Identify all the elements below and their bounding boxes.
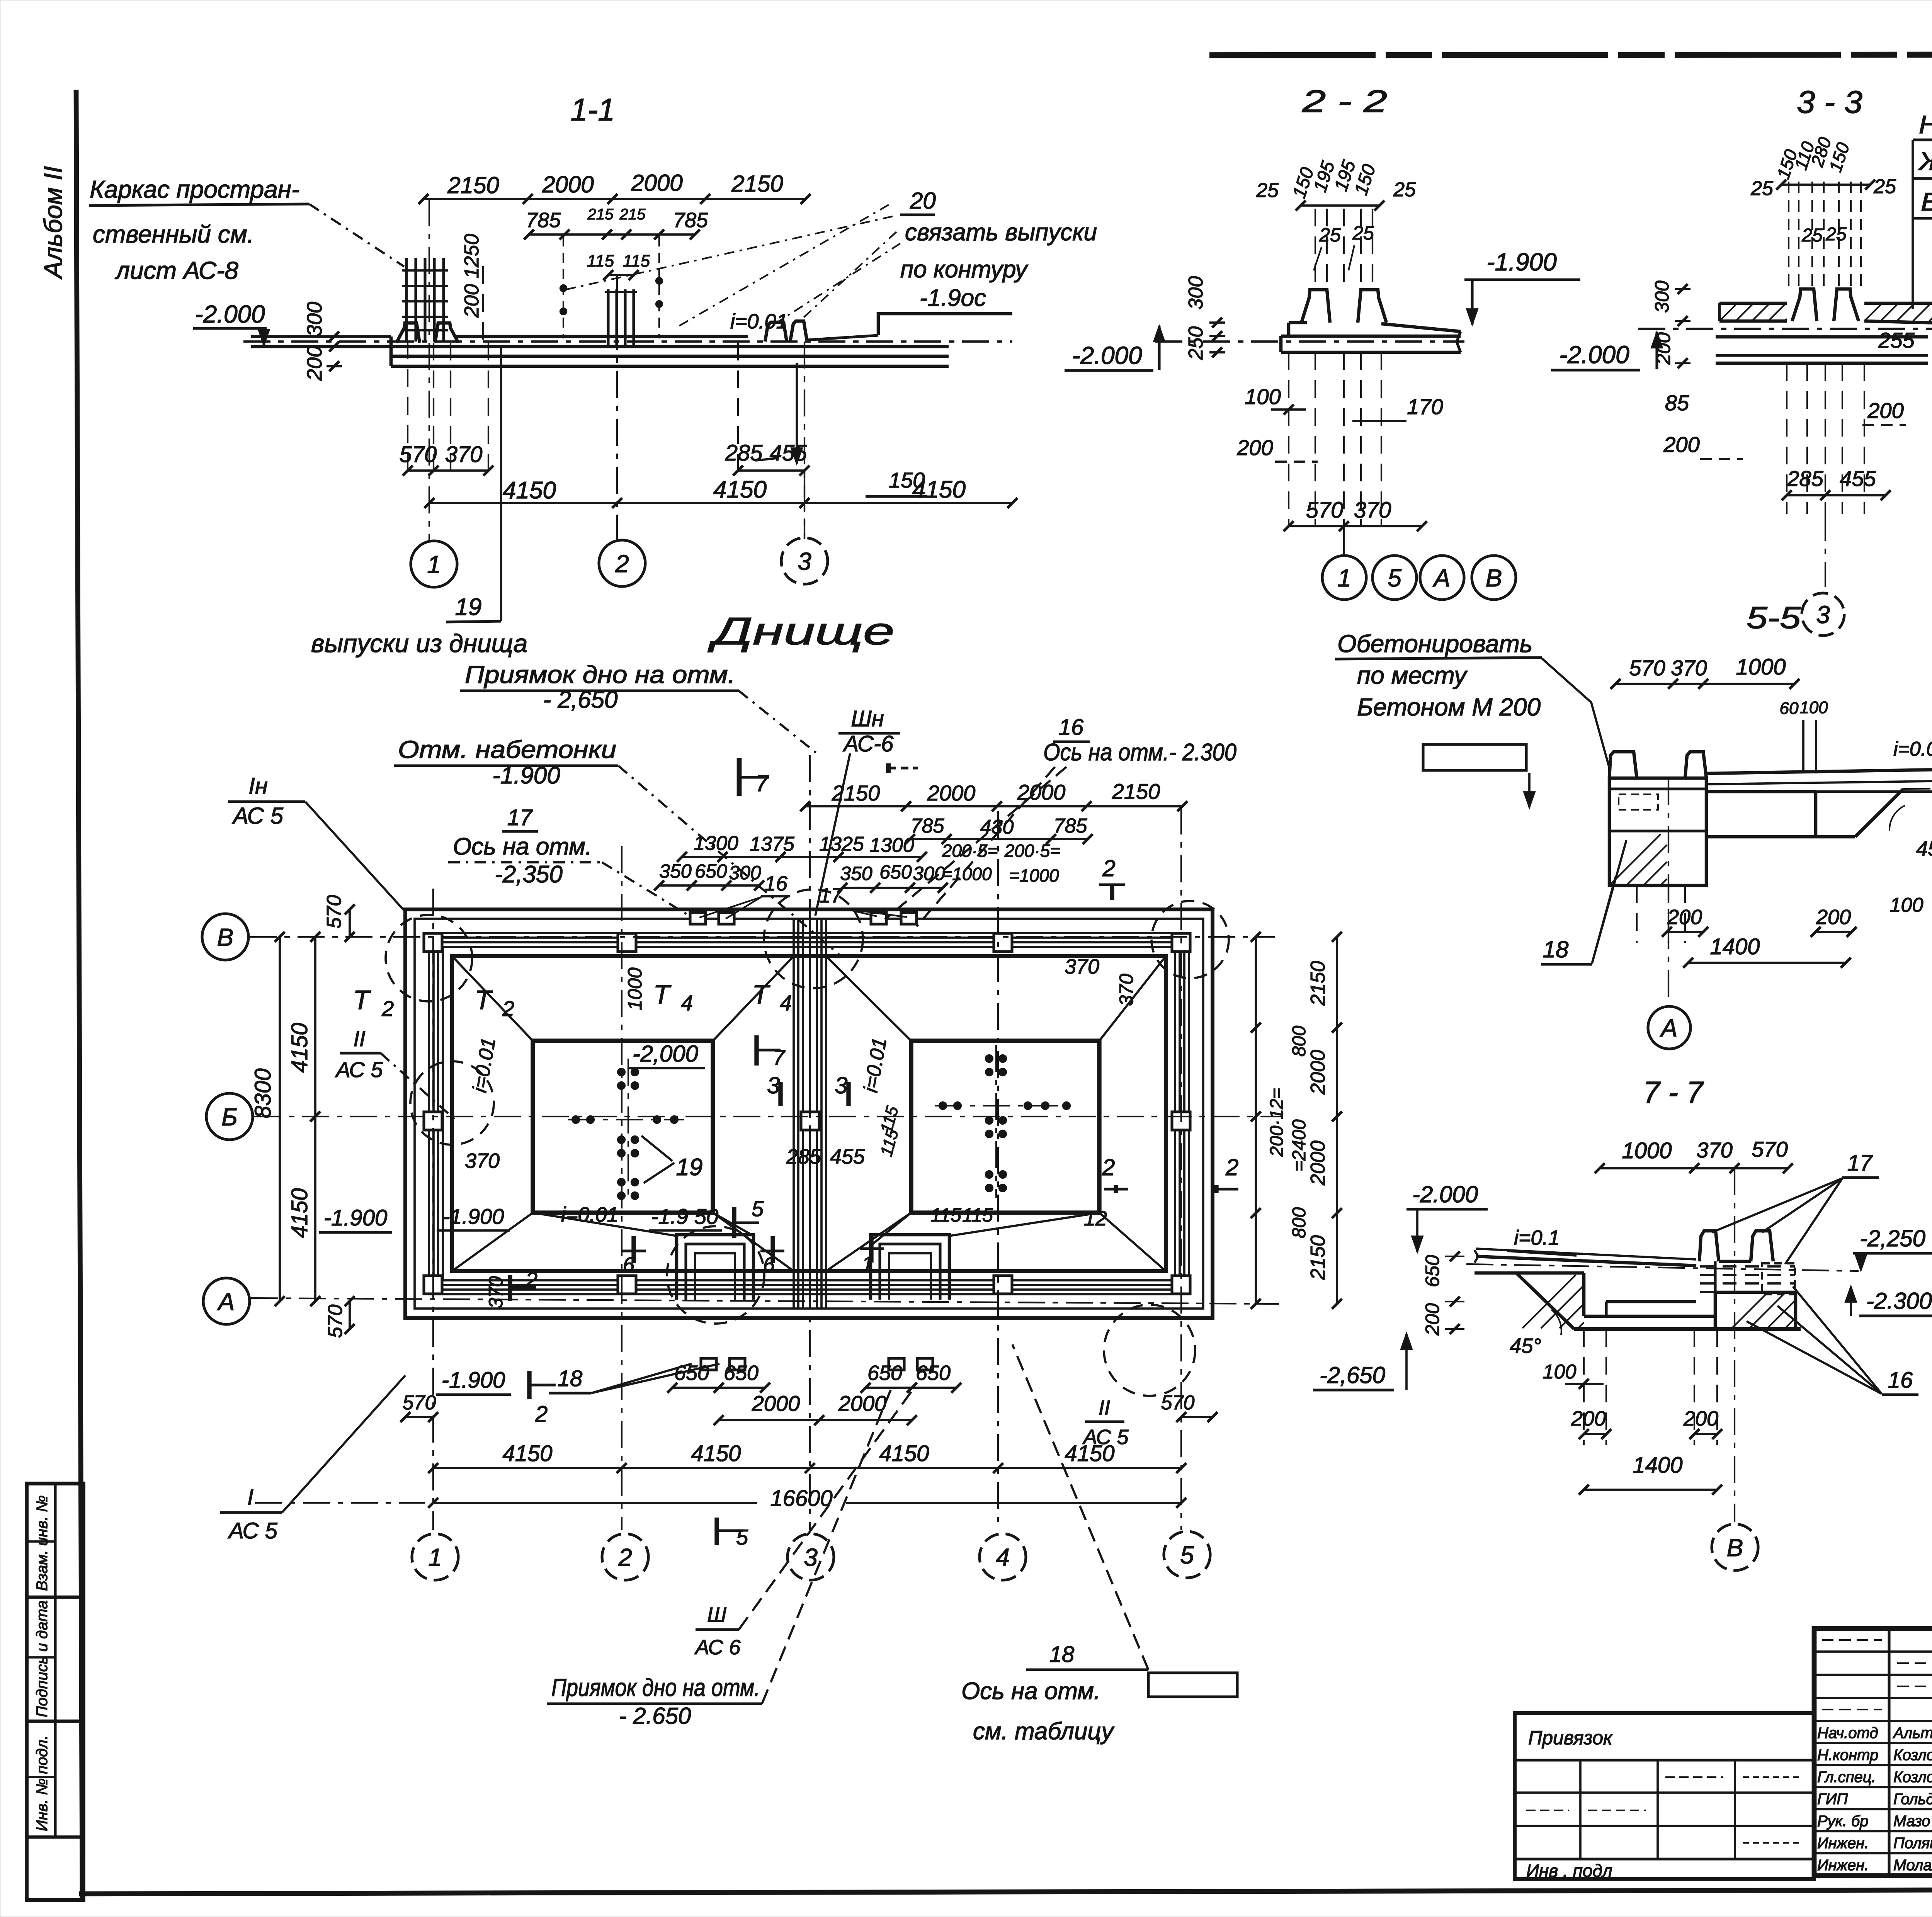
- section 2-2 top dim: [1301, 204, 1379, 207]
- section 3-3 centerline: [1638, 328, 1932, 330]
- svg-text:А: А: [1660, 1014, 1678, 1042]
- svg-text:300: 300: [1651, 280, 1673, 313]
- section 3-3 dim 285 455: [1787, 494, 1886, 496]
- svg-text:1300: 1300: [869, 834, 914, 857]
- section 2-2 lower dashed verticals: [1288, 352, 1289, 527]
- section 5-5 left block rect: [1423, 744, 1526, 770]
- svg-text:В: В: [217, 923, 234, 951]
- svg-text:АС 5: АС 5: [228, 1518, 277, 1543]
- svg-text:1000: 1000: [1736, 654, 1786, 680]
- section 1-1 axis circle 2: [599, 540, 645, 586]
- section 5-5 ground dashdot right: [1903, 787, 1932, 789]
- plan outer wall rectangles: [405, 909, 1213, 1318]
- svg-text:-1.900: -1.900: [442, 1368, 505, 1393]
- section 5-5 axis circle A: [1648, 1006, 1690, 1049]
- svg-text:Каркас простран-: Каркас простран-: [90, 175, 299, 203]
- svg-text:2000: 2000: [752, 1391, 800, 1416]
- svg-text:1000: 1000: [624, 967, 646, 1010]
- svg-text:2: 2: [502, 996, 514, 1021]
- svg-text:-2.000: -2.000: [1072, 342, 1142, 369]
- section 1-1 fan leaders: [678, 205, 889, 326]
- svg-text:370: 370: [1065, 955, 1099, 978]
- svg-text:255: 255: [1878, 328, 1915, 352]
- svg-text:200: 200: [1422, 1303, 1443, 1336]
- plan axis circle B: [206, 1093, 253, 1140]
- svg-text:285: 285: [725, 440, 763, 466]
- svg-text:=2400: =2400: [1289, 1119, 1310, 1171]
- svg-text:650: 650: [674, 1361, 709, 1385]
- svg-text:200: 200: [1236, 435, 1273, 460]
- svg-text:215: 215: [619, 206, 646, 223]
- svg-text:по месту: по месту: [1357, 661, 1468, 689]
- svg-text:Приямок дно на отм.: Приямок дно на отм.: [551, 1674, 760, 1701]
- svg-text:570: 570: [1629, 656, 1665, 680]
- svg-text:Инжен.: Инжен.: [1817, 1835, 1869, 1852]
- section 1-1 rebar cage axis1: [405, 258, 408, 342]
- plan left vertical dims: [279, 937, 281, 1301]
- svg-text:800: 800: [1289, 1026, 1310, 1057]
- svg-text:А: А: [217, 1288, 235, 1315]
- plan left chamber inner square: [533, 1041, 713, 1213]
- plan axis vertical 5: [1180, 807, 1182, 1530]
- svg-text:19: 19: [455, 594, 482, 620]
- plan marker 5 inner: [732, 1207, 736, 1238]
- svg-text:Ш: Ш: [707, 1603, 726, 1626]
- svg-text:3: 3: [767, 1072, 780, 1098]
- svg-text:-2.000: -2.000: [1412, 1181, 1478, 1207]
- svg-text:4150: 4150: [287, 1188, 312, 1238]
- svg-text:25: 25: [1750, 177, 1774, 200]
- svg-text:АС-6: АС-6: [843, 731, 894, 756]
- svg-text:Iн: Iн: [248, 773, 268, 799]
- svg-text:В: В: [1486, 564, 1502, 592]
- svg-text:370: 370: [1354, 498, 1391, 523]
- svg-text:2150: 2150: [1307, 961, 1329, 1006]
- svg-text:- 2,650: - 2,650: [543, 687, 617, 713]
- svg-text:570: 570: [323, 895, 345, 929]
- svg-text:1: 1: [427, 551, 441, 578]
- svg-text:650: 650: [1422, 1255, 1443, 1287]
- svg-text:45°: 45°: [1916, 837, 1932, 860]
- svg-text:6: 6: [763, 1253, 775, 1276]
- title block change rows: [1814, 1650, 1932, 1653]
- svg-text:-2,250: -2,250: [1860, 1225, 1925, 1251]
- plan detail circle left sump: [667, 1226, 764, 1324]
- svg-text:2000: 2000: [542, 172, 594, 197]
- svg-text:Бетонная подготовка h.100: Бетонная подготовка h.100: [1921, 187, 1932, 216]
- svg-text:370: 370: [445, 442, 483, 467]
- svg-text:200: 200: [1653, 332, 1674, 365]
- svg-text:455: 455: [770, 440, 808, 466]
- svg-text:Нач.отд: Нач.отд: [1817, 1725, 1878, 1742]
- plan bottom dim 4150 row: [433, 1467, 1181, 1469]
- svg-text:17: 17: [1847, 1151, 1873, 1176]
- svg-text:570: 570: [324, 1305, 347, 1338]
- section 1-1 right step: [389, 336, 393, 366]
- svg-text:2: 2: [618, 1543, 632, 1571]
- svg-text:4150: 4150: [691, 1441, 741, 1466]
- svg-text:Ось на отм.- 2.300: Ось на отм.- 2.300: [1043, 739, 1236, 766]
- svg-text:12: 12: [1084, 1207, 1107, 1230]
- svg-text:4: 4: [996, 1543, 1010, 1571]
- section 5-5 top dim row: [1616, 683, 1794, 685]
- svg-text:17: 17: [507, 805, 533, 830]
- section 1-1 dim row top: [423, 198, 806, 200]
- svg-text:115: 115: [930, 1204, 961, 1226]
- svg-text:2: 2: [615, 550, 629, 578]
- svg-text:215: 215: [587, 206, 614, 223]
- plan detail circle top-right corner: [1151, 901, 1229, 978]
- svg-text:лист АС-8: лист АС-8: [114, 257, 238, 284]
- section 2-2 slab: [1289, 321, 1307, 325]
- plan right vertical dims: [1255, 937, 1257, 1304]
- section 3-3 axis line and circle: [1825, 514, 1826, 587]
- svg-text:2: 2: [1102, 855, 1115, 881]
- svg-text:7: 7: [755, 770, 769, 796]
- left stamp boxes: [27, 1484, 83, 1900]
- svg-text:2: 2: [1225, 1154, 1238, 1180]
- svg-text:18: 18: [558, 1366, 583, 1391]
- plan marker 1 bottom: [869, 1236, 873, 1263]
- svg-text:Взам. инв. №: Взам. инв. №: [34, 1496, 51, 1591]
- svg-text:4150: 4150: [912, 476, 966, 503]
- svg-text:25: 25: [1393, 178, 1416, 201]
- section 7-7 left slab: [1475, 1250, 1478, 1263]
- svg-text:Инв . подл: Инв . подл: [1526, 1861, 1612, 1881]
- section 1-1 dim row 2: [529, 233, 695, 236]
- section 3-3 slab bands: [1716, 335, 1928, 339]
- sheet top dashed border: [1209, 54, 1932, 55]
- svg-text:-2.000: -2.000: [195, 300, 265, 328]
- plan detail circle bottom-right: [1104, 1305, 1195, 1396]
- section 3-3 lower dashed: [1786, 363, 1787, 514]
- svg-text:4: 4: [780, 991, 792, 1015]
- svg-text:350: 350: [840, 863, 872, 884]
- section 1-1 dims 285 455: [737, 343, 739, 471]
- section 1-1 axis circle 3: [781, 538, 828, 584]
- svg-text:200: 200: [1667, 906, 1702, 929]
- svg-text:Н.контр: Н.контр: [1817, 1747, 1878, 1764]
- svg-text:Шн: Шн: [851, 706, 884, 731]
- plan axis vertical 1: [432, 889, 434, 1530]
- plan dim row 785 430 785: [910, 838, 1088, 840]
- svg-text:-1.900: -1.900: [1486, 248, 1557, 276]
- plan marker 7 top: [737, 758, 742, 796]
- svg-text:-2,350: -2,350: [495, 861, 563, 888]
- svg-text:АС 5: АС 5: [232, 803, 284, 829]
- section 2-2 dashed verticals above: [1315, 209, 1316, 289]
- svg-text:Т: Т: [353, 985, 371, 1015]
- section 7-7 pedestal bumps: [1699, 1231, 1719, 1261]
- svg-text:2000: 2000: [1307, 1050, 1329, 1095]
- plan wall pilaster blocks: [618, 933, 636, 952]
- svg-text:200·5=: 200·5=: [1004, 841, 1061, 861]
- svg-text:Отм. набетонки: Отм. набетонки: [398, 736, 616, 763]
- section 2-2 axis line: [1343, 527, 1345, 556]
- plan axis vertical 4: [997, 811, 999, 1530]
- svg-text:4150: 4150: [287, 1023, 312, 1072]
- svg-text:16600: 16600: [770, 1486, 832, 1511]
- plan detail circle partition top: [764, 889, 863, 988]
- svg-text:АС 6: АС 6: [694, 1636, 741, 1659]
- svg-text:650: 650: [695, 860, 727, 882]
- plan right chamber inner square: [911, 1041, 1099, 1213]
- plan bottom marker 2: [527, 1371, 531, 1399]
- svg-text:Козловичер: Козловичер: [1893, 1747, 1932, 1764]
- plan bottom dim 16600: [433, 1502, 757, 1504]
- svg-text:Гольдино: Гольдино: [1893, 1791, 1932, 1808]
- svg-text:100: 100: [1245, 384, 1281, 409]
- svg-text:1000: 1000: [1622, 1138, 1672, 1163]
- svg-text:785: 785: [1054, 815, 1088, 837]
- title block verticals left part: [1888, 1628, 1890, 1876]
- svg-text:ГИП: ГИП: [1817, 1791, 1848, 1808]
- svg-text:25: 25: [1801, 225, 1823, 246]
- section 1-1 top surface: [455, 335, 748, 338]
- svg-text:3: 3: [798, 547, 811, 575]
- svg-text:Ось на отм.: Ось на отм.: [453, 833, 592, 860]
- svg-text:200: 200: [1683, 1407, 1718, 1430]
- svg-text:II: II: [353, 1026, 365, 1051]
- svg-text:1400: 1400: [1633, 1453, 1682, 1478]
- svg-text:В: В: [1727, 1534, 1743, 1562]
- svg-text:А: А: [1432, 564, 1451, 592]
- svg-text:200 1250: 200 1250: [461, 234, 483, 318]
- svg-text:Поляково: Поляково: [1893, 1835, 1932, 1852]
- svg-text:570: 570: [1752, 1137, 1787, 1161]
- section 1-1 pedestal axis1: [396, 323, 420, 343]
- svg-text:650: 650: [867, 1361, 902, 1385]
- svg-text:200·12=: 200·12=: [1267, 1088, 1287, 1157]
- svg-text:285: 285: [786, 1145, 821, 1168]
- svg-text:5: 5: [1180, 1541, 1194, 1569]
- svg-text:2 - 2: 2 - 2: [1302, 84, 1387, 119]
- svg-text:25: 25: [1319, 224, 1341, 246]
- svg-text:Гл.спец.: Гл.спец.: [1817, 1769, 1876, 1786]
- section 7-7 gland dashed pipe: [1700, 1265, 1795, 1268]
- section 2-2 dim 570 370: [1289, 525, 1422, 527]
- svg-text:800: 800: [1289, 1207, 1310, 1238]
- svg-text:2150: 2150: [731, 171, 783, 197]
- svg-text:370: 370: [1116, 974, 1137, 1006]
- sheet bottom frame line: [79, 1888, 1932, 1894]
- svg-text:8300: 8300: [250, 1068, 276, 1118]
- plan dim row 1300 1375 1325 1300: [682, 856, 922, 858]
- svg-text:по контуру: по контуру: [900, 256, 1029, 283]
- svg-text:Ось на отм.: Ось на отм.: [961, 1678, 1100, 1705]
- section 3-3 hatch band right: [1864, 302, 1932, 305]
- notes leader: [1912, 140, 1914, 309]
- svg-text:Инв. № подл.: Инв. № подл.: [34, 1735, 51, 1831]
- svg-text:4150: 4150: [879, 1441, 929, 1466]
- plan axis vertical 2: [621, 846, 622, 1530]
- svg-text:Приямок дно на отм.: Приямок дно на отм.: [465, 661, 735, 688]
- svg-text:2000: 2000: [927, 781, 976, 805]
- svg-text:Днище: Днище: [707, 610, 895, 653]
- svg-text:650: 650: [916, 1361, 951, 1385]
- plan rebar dots left chamber: [618, 1069, 625, 1076]
- svg-text:370: 370: [485, 1276, 507, 1309]
- svg-text:=1000: =1000: [1009, 865, 1059, 885]
- plan marker 5 below: [714, 1518, 719, 1545]
- svg-text:200: 200: [1867, 398, 1903, 423]
- svg-text:Молахова: Молахова: [1893, 1857, 1932, 1874]
- svg-text:1400: 1400: [1710, 934, 1760, 959]
- plan top dim row 2150-2000-2000-2150: [805, 805, 1182, 807]
- section 7-7 top dim: [1600, 1167, 1788, 1169]
- section 1-1 base slab lines: [251, 345, 949, 348]
- svg-text:16: 16: [1059, 715, 1084, 740]
- plan axis horizontal A: [251, 1298, 1279, 1304]
- section 2-2 pedestal: [1301, 290, 1330, 323]
- svg-text:785: 785: [526, 209, 561, 232]
- svg-text:5: 5: [752, 1196, 764, 1221]
- plan marker 6 pair: [631, 1236, 636, 1263]
- plan vypusk stubs top wall: [690, 913, 706, 924]
- svg-text:1: 1: [1337, 564, 1351, 592]
- note obetonirovat leader: [1542, 658, 1609, 768]
- plan partition wall: [793, 919, 795, 1308]
- svg-text:3: 3: [835, 1072, 847, 1098]
- svg-text:4150: 4150: [502, 1441, 552, 1466]
- section 1-1 axis circle 1: [411, 541, 457, 587]
- section 7-7 base block: [1714, 1261, 1716, 1292]
- svg-text:Инжен.: Инжен.: [1817, 1857, 1869, 1874]
- svg-text:5-5: 5-5: [1747, 600, 1801, 635]
- plan rebar dots right chamber: [986, 1055, 993, 1062]
- section 5-5 block bumps: [1609, 752, 1637, 778]
- svg-text:2: 2: [535, 1402, 548, 1427]
- plan left chamber diagonals: [452, 956, 533, 1041]
- svg-text:-2.300: -2.300: [1866, 1288, 1932, 1314]
- plan axis circle V: [202, 914, 248, 960]
- svg-text:100: 100: [1890, 894, 1923, 916]
- svg-text:18: 18: [1049, 1642, 1075, 1667]
- svg-text:5: 5: [736, 1525, 748, 1549]
- svg-text:2150: 2150: [1307, 1235, 1329, 1280]
- plan detail circle top-left corner: [386, 915, 472, 1001]
- svg-text:7: 7: [773, 1045, 786, 1069]
- section 2-2 axis circles: [1322, 556, 1366, 600]
- svg-text:- 2.650: - 2.650: [619, 1703, 691, 1729]
- section 1-1 center dashdot: [243, 340, 1012, 343]
- svg-text:85: 85: [1665, 391, 1689, 415]
- section 7-7 pit: [1582, 1273, 1586, 1316]
- svg-text:ственный см.: ственный см.: [93, 220, 254, 248]
- svg-text:285: 285: [1787, 466, 1823, 491]
- svg-text:17: 17: [819, 884, 843, 907]
- svg-text:Подпись и дата: Подпись и дата: [34, 1600, 51, 1717]
- svg-text:Железобетонное днище h=200: Железобетонное днище h=200: [1918, 147, 1932, 175]
- svg-text:25: 25: [1873, 175, 1896, 198]
- svg-text:-1.9ос: -1.9ос: [920, 285, 986, 311]
- svg-text:20: 20: [910, 188, 936, 214]
- svg-text:200: 200: [303, 346, 326, 381]
- svg-text:см. таблицу: см. таблицу: [973, 1718, 1115, 1745]
- plan axis circle A: [203, 1278, 250, 1324]
- svg-text:Обетонировать: Обетонировать: [1337, 630, 1532, 658]
- svg-text:100: 100: [1543, 1361, 1577, 1383]
- svg-text:3 - 3: 3 - 3: [1797, 85, 1862, 120]
- section 3-3 rebar verticals: [1788, 182, 1789, 288]
- svg-text:связать выпуски: связать выпуски: [905, 219, 1097, 246]
- svg-text:370: 370: [1696, 1138, 1732, 1162]
- svg-text:Привязок: Привязок: [1528, 1727, 1613, 1749]
- svg-text:19: 19: [676, 1154, 703, 1181]
- svg-text:1375: 1375: [750, 833, 795, 855]
- svg-text:2150: 2150: [447, 172, 499, 198]
- section 5-5 pit: [1706, 835, 1855, 839]
- plan sump slope diagonals: [533, 1213, 677, 1236]
- svg-text:570: 570: [1306, 498, 1344, 523]
- svg-text:25: 25: [1352, 222, 1374, 244]
- svg-text:Бетоном М 200: Бетоном М 200: [1357, 693, 1541, 721]
- svg-text:200: 200: [1571, 1407, 1606, 1430]
- section 7-7 dims below: [1583, 1329, 1585, 1445]
- section 1-1 bumps axis3: [765, 322, 787, 342]
- svg-text:570: 570: [1161, 1392, 1195, 1414]
- plan axis circles bottom 1-5: [412, 1534, 458, 1580]
- section 7-7 diagonal 45: [1516, 1273, 1574, 1329]
- svg-text:2000: 2000: [631, 170, 682, 196]
- svg-text:-1.900: -1.900: [324, 1205, 387, 1230]
- svg-text:350: 350: [659, 860, 692, 882]
- plan axis horizontal V: [250, 936, 1275, 938]
- plan left sump: [677, 1235, 753, 1300]
- svg-text:i=0.01: i=0.01: [561, 1203, 619, 1226]
- svg-text:3: 3: [804, 1543, 818, 1571]
- section 5-5 diagonal 45: [1855, 789, 1903, 837]
- svg-text:Рук. бр: Рук. бр: [1817, 1813, 1869, 1830]
- section 7-7 centerline: [1466, 1264, 1859, 1271]
- svg-text:455: 455: [1840, 466, 1876, 491]
- svg-text:i=0.1: i=0.1: [1514, 1226, 1560, 1249]
- svg-text:45°: 45°: [1510, 1334, 1541, 1358]
- svg-text:i=0.01: i=0.01: [1893, 738, 1932, 760]
- svg-text:АС 5: АС 5: [335, 1057, 383, 1082]
- svg-text:2150: 2150: [1112, 779, 1160, 804]
- svg-text:300: 300: [303, 302, 326, 336]
- svg-text:200·5=: 200·5=: [942, 841, 998, 861]
- svg-text:200: 200: [1816, 906, 1851, 929]
- section 7-7 axis circle B: [1734, 1168, 1735, 1522]
- section 1-1 axis dim 4150 row: [429, 502, 1012, 504]
- svg-text:Т: Т: [653, 979, 672, 1009]
- svg-text:1-1: 1-1: [571, 92, 615, 127]
- svg-text:370: 370: [1671, 656, 1707, 680]
- svg-text:Т: Т: [475, 985, 493, 1015]
- privjazok block: [1515, 1713, 1814, 1879]
- section 1-1 right end step: [878, 314, 1012, 335]
- svg-text:Т: Т: [752, 979, 770, 1009]
- section 1-1 note leader: [309, 204, 404, 267]
- svg-text:Набетонка по уклону бетон м150: Набетонка по уклону бетон м150: [1919, 110, 1932, 139]
- section 1-1 pedestal dims below: [407, 342, 408, 471]
- svg-text:2: 2: [381, 996, 394, 1021]
- section 3-3 hatch band left: [1719, 302, 1787, 305]
- svg-text:Б: Б: [221, 1103, 238, 1131]
- plan right sump: [871, 1235, 949, 1300]
- plan axis vertical 3: [809, 755, 811, 1530]
- svg-text:Козловичер: Козловичер: [1893, 1769, 1932, 1786]
- svg-text:-1.9 50: -1.9 50: [651, 1204, 718, 1229]
- plan marker 7 inner: [754, 1035, 759, 1066]
- svg-text:650: 650: [724, 1361, 759, 1385]
- section 2-2 centerline: [1155, 340, 1464, 343]
- sheet left frame line: [76, 90, 82, 1900]
- svg-text:Альбом II: Альбом II: [39, 166, 67, 280]
- svg-text:2: 2: [1102, 1154, 1115, 1180]
